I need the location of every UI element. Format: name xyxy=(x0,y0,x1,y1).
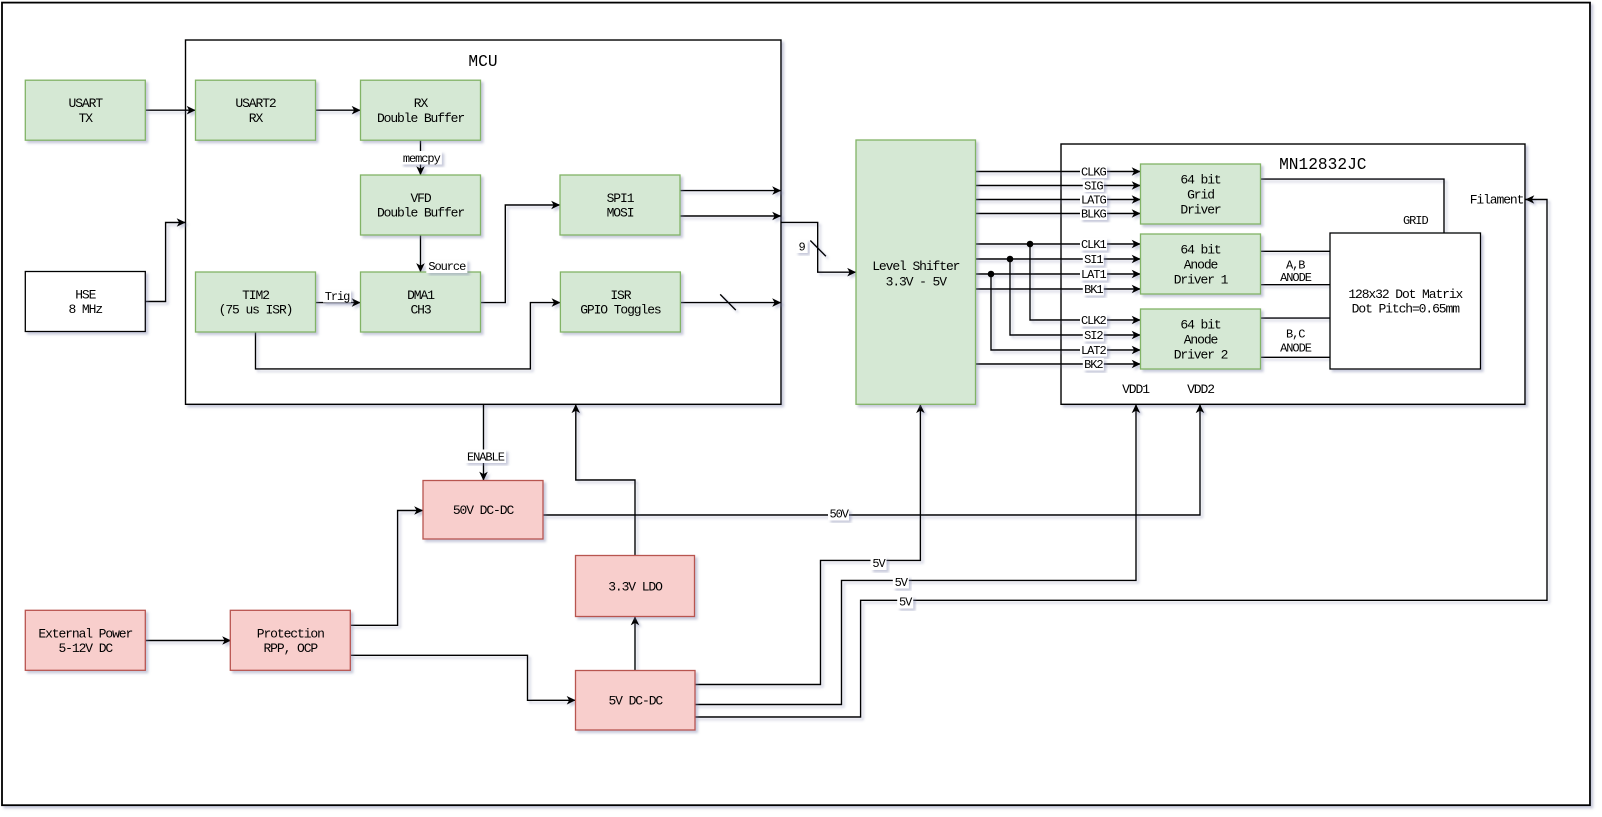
block 64 bit Anode Driver 1 xyxy=(1141,234,1261,294)
block VFD Double Buffer xyxy=(361,175,481,235)
svg-text:50V DC-DC: 50V DC-DC xyxy=(453,503,515,518)
wire LAT1 xyxy=(976,273,1141,275)
wire Protection to 5V DC-DC xyxy=(350,655,575,700)
svg-text:memcpy: memcpy xyxy=(403,152,441,166)
bus slash on 9 bus xyxy=(810,241,826,257)
svg-text:128x32 Dot Matrix: 128x32 Dot Matrix xyxy=(1348,287,1463,302)
wire 50V rail to VDD2 xyxy=(543,404,1200,515)
label LATG xyxy=(1080,194,1107,207)
svg-text:CLK1: CLK1 xyxy=(1081,238,1106,252)
svg-text:Driver: Driver xyxy=(1180,202,1221,217)
svg-text:LAT2: LAT2 xyxy=(1081,344,1106,358)
wire CLKG xyxy=(976,171,1141,173)
svg-text:RX: RX xyxy=(249,111,264,126)
wire bus 9 MCU to Level Shifter xyxy=(781,222,856,272)
block HSE 8 MHz xyxy=(25,272,145,332)
svg-text:MN12832JC: MN12832JC xyxy=(1279,156,1367,174)
svg-text:Protection: Protection xyxy=(257,626,324,641)
svg-text:GPIO Toggles: GPIO Toggles xyxy=(580,303,661,318)
wire TIM2 to ISR GPIO Toggles xyxy=(256,303,561,369)
svg-text:RPP, OCP: RPP, OCP xyxy=(263,641,318,656)
svg-text:64 bit: 64 bit xyxy=(1180,242,1221,257)
wire DMA1 to SPI1 xyxy=(481,205,561,303)
block Level Shifter xyxy=(856,140,976,404)
svg-text:Grid: Grid xyxy=(1187,187,1214,202)
label ENABLE xyxy=(465,450,506,464)
svg-text:GRID: GRID xyxy=(1403,214,1428,228)
svg-text:64 bit: 64 bit xyxy=(1180,317,1221,332)
svg-text:TIM2: TIM2 xyxy=(242,288,269,303)
svg-text:TX: TX xyxy=(79,111,94,126)
svg-text:External Power: External Power xyxy=(38,626,132,641)
wire BK2 xyxy=(976,363,1141,365)
wire 5V DC-DC to 3.3V LDO xyxy=(634,617,636,671)
block 64 bit Anode Driver 2 xyxy=(1141,309,1261,369)
label 5V b xyxy=(893,576,909,589)
svg-text:LAT1: LAT1 xyxy=(1081,268,1106,282)
wire memcpy RX to VFD buffer xyxy=(420,140,422,175)
block ISR GPIO Toggles xyxy=(560,272,680,332)
block External Power xyxy=(25,610,145,670)
svg-text:B,C: B,C xyxy=(1286,328,1305,342)
svg-text:9: 9 xyxy=(799,240,806,254)
svg-text:Double Buffer: Double Buffer xyxy=(377,111,464,126)
label BK1 xyxy=(1083,283,1104,296)
block 5V DC-DC xyxy=(576,671,696,731)
label 5V a xyxy=(871,557,887,570)
wire 5V rail to Level Shifter xyxy=(695,404,920,684)
label CLKG xyxy=(1080,166,1107,179)
svg-text:Trig: Trig xyxy=(325,290,350,304)
label SI1 xyxy=(1083,253,1104,266)
junction dot CLK xyxy=(1027,241,1034,248)
block SPI1 MOSI xyxy=(560,175,680,235)
svg-text:BLKG: BLKG xyxy=(1081,208,1106,222)
svg-text:CH3: CH3 xyxy=(410,303,430,318)
svg-text:ANODE: ANODE xyxy=(1280,271,1312,285)
label 9 xyxy=(796,240,808,254)
wire SPI1 output B to MCU edge xyxy=(681,215,782,217)
container MN12832JC xyxy=(1061,144,1525,404)
wire B,C anode lower xyxy=(1261,356,1331,358)
svg-text:Source: Source xyxy=(428,260,466,274)
svg-text:BK1: BK1 xyxy=(1084,283,1103,297)
svg-text:8 MHz: 8 MHz xyxy=(69,302,103,317)
svg-text:MCU: MCU xyxy=(468,53,497,71)
svg-text:5V: 5V xyxy=(895,576,909,590)
block USART2 RX xyxy=(196,80,316,140)
svg-text:USART2: USART2 xyxy=(235,96,276,111)
svg-text:CLKG: CLKG xyxy=(1081,166,1106,180)
svg-text:VFD: VFD xyxy=(410,191,431,206)
wire USART2 RX to RX Double Buffer xyxy=(316,109,361,111)
block Protection RPP OCP xyxy=(230,610,350,670)
label memcpy xyxy=(401,151,442,165)
wire B,C anode upper xyxy=(1261,317,1331,319)
wire A,B anode upper xyxy=(1261,250,1331,252)
bus slash on ISR output xyxy=(720,294,736,310)
label BK2 xyxy=(1083,358,1104,371)
label CLK2 xyxy=(1080,314,1107,327)
block 50V DC-DC xyxy=(423,481,543,540)
svg-text:VDD2: VDD2 xyxy=(1187,382,1214,397)
wire 5V rail to Filament xyxy=(695,200,1547,718)
wire ISR output to MCU edge xyxy=(681,302,782,304)
svg-text:Double Buffer: Double Buffer xyxy=(377,206,464,221)
label LAT1 xyxy=(1080,268,1107,281)
svg-text:SIG: SIG xyxy=(1084,180,1103,194)
svg-text:5-12V DC: 5-12V DC xyxy=(58,641,113,656)
svg-text:5V: 5V xyxy=(899,595,913,609)
svg-text:BK2: BK2 xyxy=(1084,358,1103,372)
wire CLK2 branch xyxy=(1030,244,1141,320)
wire SI1 xyxy=(976,258,1141,260)
wire ENABLE MCU to 50V DC-DC xyxy=(483,404,485,480)
wire HSE to MCU xyxy=(145,223,185,302)
svg-text:ANODE: ANODE xyxy=(1280,342,1312,356)
svg-text:ENABLE: ENABLE xyxy=(467,451,505,465)
svg-text:HSE: HSE xyxy=(75,288,96,303)
wire LATG xyxy=(976,199,1141,201)
label CLK1 xyxy=(1080,238,1107,251)
svg-text:DMA1: DMA1 xyxy=(407,288,435,303)
wire SPI1 output A to MCU edge xyxy=(681,190,782,192)
block DMA1 CH3 xyxy=(361,272,481,332)
svg-text:LATG: LATG xyxy=(1081,194,1106,208)
wire 5V rail to VDD1 xyxy=(695,404,1136,704)
svg-text:MOSI: MOSI xyxy=(607,206,634,221)
label 50V xyxy=(828,509,849,521)
label Trig xyxy=(323,290,351,303)
wire USART TX to USART2 RX xyxy=(145,109,195,111)
svg-text:Driver 1: Driver 1 xyxy=(1174,272,1229,287)
block TIM2 xyxy=(196,272,316,332)
wires group xyxy=(145,110,1547,717)
block RX Double Buffer xyxy=(361,80,481,140)
block 128x32 Dot Matrix xyxy=(1330,233,1481,369)
block 3.3V LDO xyxy=(576,556,695,617)
block USART TX xyxy=(25,80,145,140)
svg-text:3.3V LDO: 3.3V LDO xyxy=(608,579,663,594)
wire SIG xyxy=(976,185,1141,187)
label LAT2 xyxy=(1080,344,1107,357)
wire Protection to 50V DC-DC xyxy=(350,511,423,626)
svg-text:VDD1: VDD1 xyxy=(1122,382,1150,397)
label SIG xyxy=(1083,180,1104,193)
wire CLK1 xyxy=(976,243,1141,245)
svg-text:64 bit: 64 bit xyxy=(1180,172,1221,187)
junction dot LAT xyxy=(988,271,995,278)
wire 3.3V LDO to MCU xyxy=(576,404,635,555)
wire LAT2 branch xyxy=(991,274,1141,350)
wire Trig TIM2 to DMA1 xyxy=(316,302,361,304)
wire SI2 branch xyxy=(1010,259,1141,335)
svg-text:ISR: ISR xyxy=(610,288,631,303)
wire A,B anode lower xyxy=(1261,284,1331,286)
wire Source VFD buffer to DMA1 xyxy=(420,235,422,272)
wire BK1 xyxy=(976,288,1141,290)
svg-text:50V: 50V xyxy=(829,508,849,522)
svg-text:SPI1: SPI1 xyxy=(607,191,635,206)
wire BLKG xyxy=(976,213,1141,215)
block 64 bit Grid Driver xyxy=(1141,164,1261,224)
svg-text:3.3V - 5V: 3.3V - 5V xyxy=(886,274,948,289)
label SI2 xyxy=(1083,329,1104,342)
wire GRID driver to dot matrix xyxy=(1261,179,1445,233)
junction dot SI xyxy=(1007,256,1014,263)
label 5V c xyxy=(897,596,913,609)
svg-text:SI2: SI2 xyxy=(1084,329,1103,343)
wire External Power to Protection xyxy=(146,640,231,642)
label BLKG xyxy=(1080,208,1107,221)
svg-text:Anode: Anode xyxy=(1184,332,1218,347)
svg-text:5V DC-DC: 5V DC-DC xyxy=(608,694,663,709)
svg-text:Filament: Filament xyxy=(1470,193,1524,208)
svg-text:(75 us ISR): (75 us ISR) xyxy=(219,303,293,318)
svg-text:5V: 5V xyxy=(872,557,886,571)
svg-text:CLK2: CLK2 xyxy=(1081,314,1106,328)
svg-text:SI1: SI1 xyxy=(1084,253,1103,267)
svg-text:Driver 2: Driver 2 xyxy=(1174,347,1228,362)
svg-text:RX: RX xyxy=(414,96,429,111)
svg-text:Level Shifter: Level Shifter xyxy=(872,259,959,274)
label Source xyxy=(426,260,467,274)
svg-text:Anode: Anode xyxy=(1184,257,1218,272)
container MCU xyxy=(186,40,782,404)
svg-text:Dot Pitch=0.65mm: Dot Pitch=0.65mm xyxy=(1352,302,1461,317)
svg-text:USART: USART xyxy=(69,96,104,111)
